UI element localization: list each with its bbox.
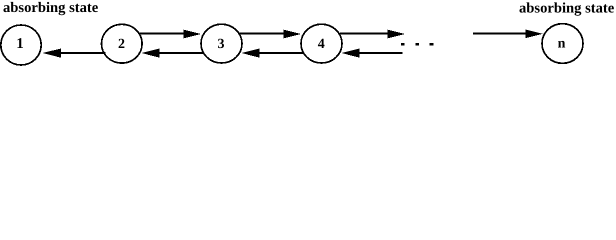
svg-text:4: 4 — [318, 37, 325, 52]
ellipsis dots — [401, 43, 433, 45]
state 2 circle — [102, 24, 143, 63]
svg-text:2: 2 — [118, 37, 125, 52]
arrow 3 to 2 (lower, left-pointing) — [141, 49, 203, 58]
state 4 circle — [301, 24, 342, 63]
svg-text:n: n — [558, 37, 566, 52]
svg-text:3: 3 — [218, 37, 225, 52]
state 3 circle — [201, 24, 242, 63]
arrow 4 to 3 (lower, left-pointing) — [241, 49, 303, 58]
state n circle — [542, 24, 583, 64]
arrow 3 to 4 (upper, right-pointing) — [239, 30, 301, 39]
arrow 2 to 3 (upper, right-pointing) — [139, 30, 201, 39]
state 1 circle — [1, 25, 41, 65]
svg-text:absorbing state: absorbing state — [519, 1, 615, 17]
svg-text:1: 1 — [16, 36, 24, 52]
arrow 4 to right (upper, right-pointing) — [340, 30, 405, 39]
svg-text:absorbing state: absorbing state — [3, 0, 99, 16]
arrow right to 4 (lower, left-pointing) — [341, 49, 402, 58]
arrow into n (upper, right-pointing) — [473, 30, 543, 39]
arrow 2 to 1 (lower, left-pointing) — [43, 49, 106, 58]
